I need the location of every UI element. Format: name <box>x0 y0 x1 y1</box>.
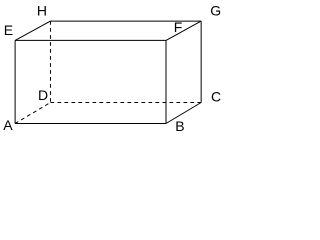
svg-text:A: A <box>3 117 13 133</box>
edge HG (top back) <box>50 20 201 22</box>
svg-text:F: F <box>174 19 183 35</box>
svg-text:E: E <box>4 22 13 38</box>
svg-text:B: B <box>175 118 184 134</box>
edge DC hidden (dashed) <box>50 102 201 104</box>
edge AB (bottom front) <box>15 123 166 125</box>
edge GC (right back vertical) <box>200 21 202 102</box>
edge EF (top front) <box>15 39 166 41</box>
edge HD hidden (dashed) <box>49 21 51 102</box>
edge EA (left front vertical) <box>14 40 16 123</box>
svg-text:G: G <box>210 3 221 19</box>
edge EH (top left depth) <box>15 21 50 40</box>
edge BC (bottom right depth) <box>166 103 201 124</box>
svg-text:D: D <box>38 87 48 103</box>
edge AD hidden (dashed) <box>15 103 50 124</box>
edge FB (right front vertical) <box>165 40 167 123</box>
svg-text:H: H <box>37 3 47 19</box>
edge FG (top right depth) <box>166 21 201 40</box>
svg-text:C: C <box>211 88 221 104</box>
